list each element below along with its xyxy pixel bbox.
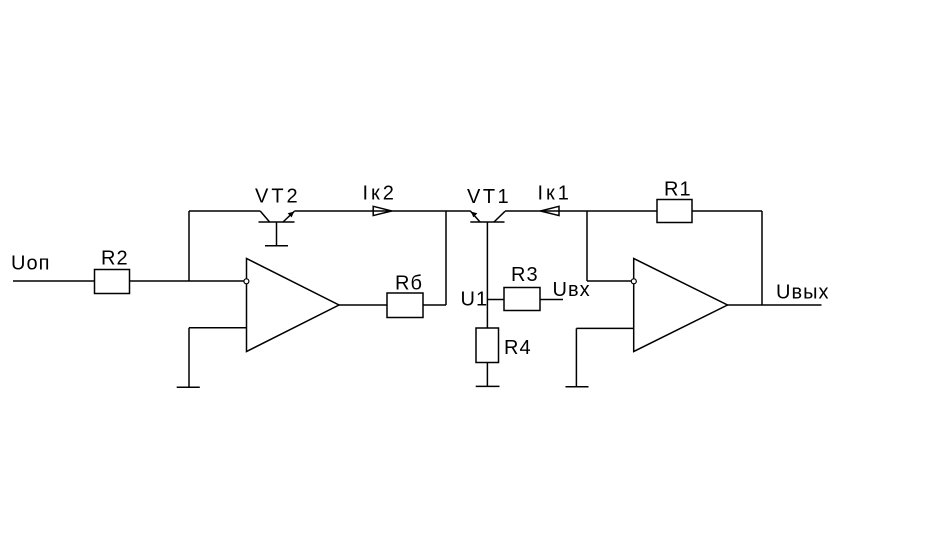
transistor VT1 (470, 211, 505, 299)
svg-text:Uвх: Uвх (553, 279, 591, 301)
svg-text:Rб: Rб (395, 273, 423, 295)
wire top rail VT1 to R1 (through feedback node C) (505, 210, 657, 212)
svg-text:U1: U1 (461, 289, 489, 311)
ground at VT2 base (265, 245, 288, 247)
ground at op-amp U2 (566, 386, 589, 388)
wire R6 to node B vertical (423, 304, 446, 306)
resistor R2 (95, 270, 130, 294)
resistor R4 (476, 328, 499, 363)
op-amp U2 (right) (634, 259, 728, 352)
wire node B vertical to R6 output (445, 211, 447, 305)
op-amp U1 (left) (247, 259, 340, 352)
input circle op-amp U2 (631, 279, 636, 284)
wire op-amp U1 output to R6 (339, 304, 387, 306)
wire Uop input to R2 (13, 280, 95, 282)
ground at R4 (476, 385, 500, 387)
wire R2 to op-amp U1 input (through node A) (130, 280, 247, 282)
svg-text:Iк2: Iк2 (363, 183, 397, 205)
wire lower input vertical to ground (188, 328, 190, 387)
wire R4 to ground (486, 363, 488, 387)
svg-text:VT2: VT2 (255, 186, 301, 208)
svg-text:R1: R1 (664, 179, 692, 201)
resistor R6 (Rб) (387, 293, 423, 318)
svg-text:Iк1: Iк1 (538, 183, 572, 205)
wire node D vertical to output (761, 211, 763, 305)
svg-text:Uоп: Uоп (11, 253, 50, 275)
wire U2 lower input vertical to ground (575, 328, 577, 386)
resistor R1 (657, 200, 692, 223)
wire node U1 down to R4 (486, 300, 488, 329)
wire R1 to output node D (692, 210, 762, 212)
wire node C vertical to op-amp U2 input (586, 211, 588, 281)
wire node U1 to R3 (487, 299, 504, 301)
wire op-amp U1 lower input (189, 327, 247, 329)
input circle op-amp U1 (244, 279, 249, 284)
wire top rail VT2 to VT1 (through node B) (294, 210, 471, 212)
resistor R3 (504, 288, 540, 311)
wire R3 to Uvx terminal (540, 299, 563, 301)
wire feedback node C to op-amp U2 input (587, 280, 634, 282)
wire node A vertical to top rail (188, 211, 190, 281)
wire op-amp U2 lower input (576, 327, 633, 329)
svg-text:R2: R2 (101, 248, 129, 270)
svg-text:VT1: VT1 (467, 186, 511, 208)
svg-text:Uвых: Uвых (776, 282, 829, 304)
transistor VT2 (259, 211, 295, 246)
wire op-amp U2 output Uvyx (728, 304, 822, 306)
current arrow Ik2 (373, 206, 392, 215)
wire top rail left segment to VT2 (189, 210, 260, 212)
svg-text:R4: R4 (504, 337, 532, 359)
ground at op-amp U1 (177, 386, 200, 388)
svg-text:R3: R3 (511, 264, 539, 286)
current arrow Ik1 (541, 206, 560, 215)
